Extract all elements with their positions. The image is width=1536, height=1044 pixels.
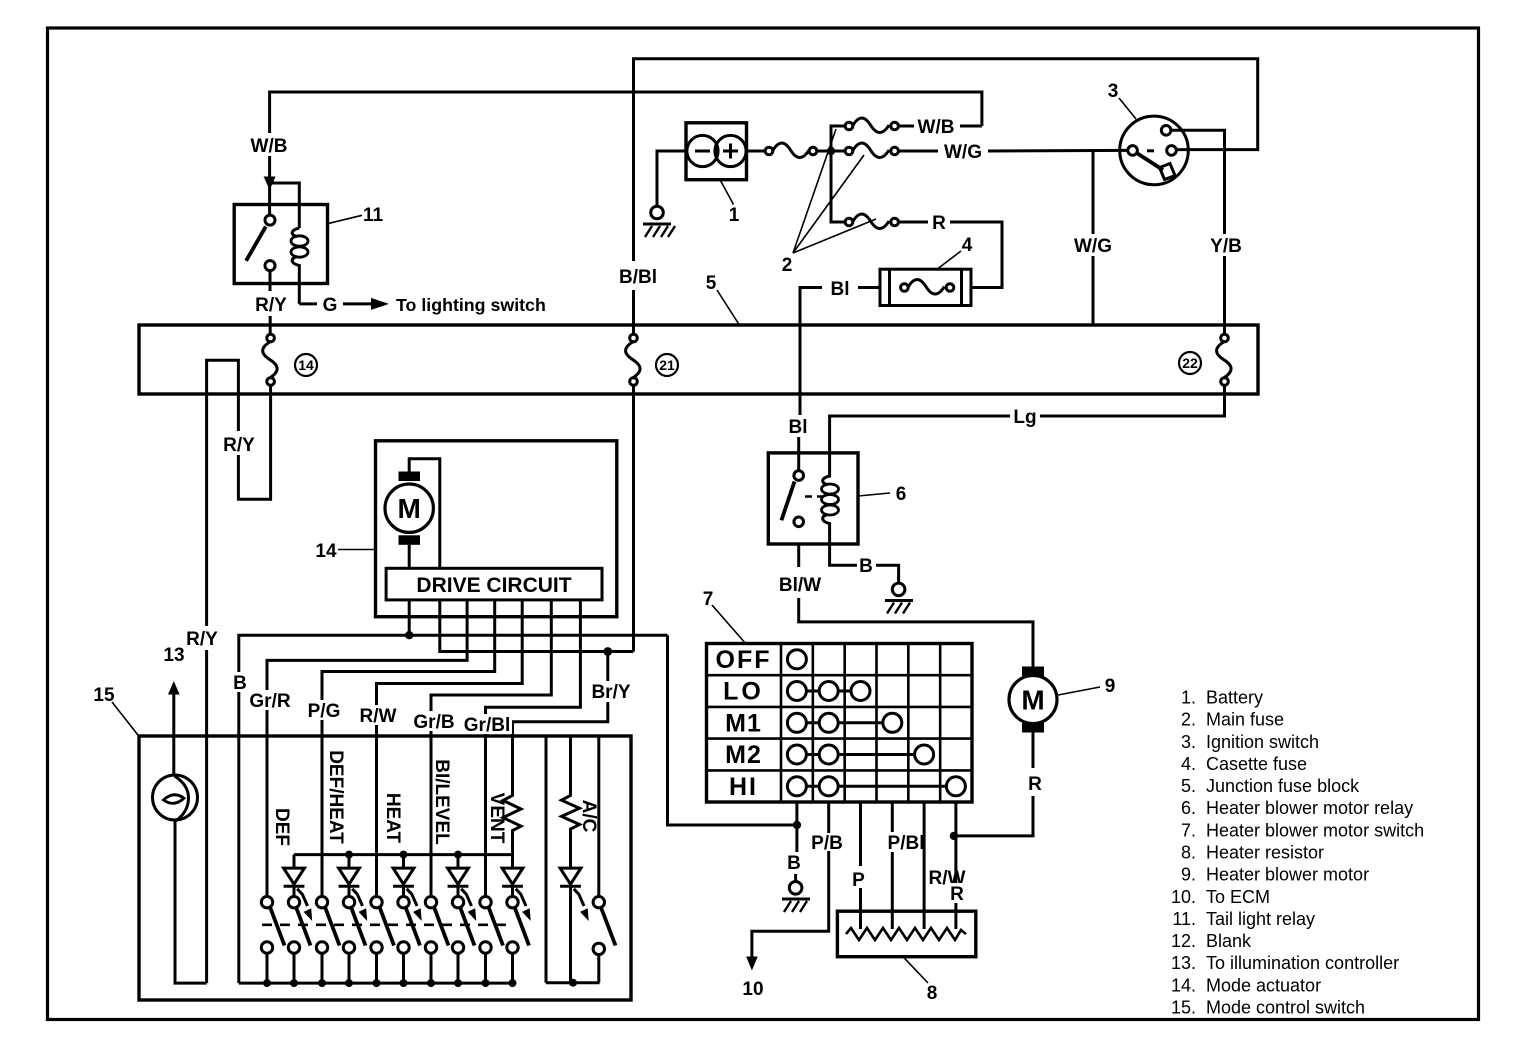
svg-text:B: B bbox=[859, 556, 873, 577]
svg-text:7: 7 bbox=[703, 589, 714, 610]
svg-text:R/Y: R/Y bbox=[186, 629, 218, 650]
wire Bl from cassette fuse bbox=[858, 286, 880, 289]
wire pin6 Gr/B bbox=[431, 600, 551, 897]
wire R/Y detour below fuse 14 bbox=[207, 360, 271, 626]
resistor element bbox=[846, 928, 966, 940]
switch row LO contact line bbox=[797, 690, 861, 693]
contacts group 1 bbox=[261, 897, 272, 908]
ground at relay 6 bbox=[892, 583, 905, 596]
svg-text:4.: 4. bbox=[1181, 754, 1196, 774]
svg-text:13: 13 bbox=[163, 645, 184, 666]
wire Bl/W relay 6 to motor 9 bbox=[797, 544, 800, 567]
wire pin2 to B/Bl junction bbox=[440, 600, 634, 652]
label R/W bbox=[926, 867, 968, 889]
switch blade 2a bbox=[325, 908, 339, 946]
arrow 10 bbox=[746, 957, 758, 971]
wire pin3 Gr/R bbox=[267, 600, 467, 897]
svg-text:P/B: P/B bbox=[811, 833, 843, 854]
actuation arrow group 5 bbox=[516, 889, 526, 906]
svg-text:R/W: R/W bbox=[360, 706, 397, 727]
wire B run bbox=[239, 635, 668, 672]
mode switch group 5 top contacts bbox=[486, 948, 513, 984]
switch blade 4a bbox=[434, 908, 448, 946]
svg-text:2.: 2. bbox=[1181, 710, 1196, 730]
svg-text:To lighting switch: To lighting switch bbox=[396, 295, 546, 315]
svg-text:R: R bbox=[932, 213, 946, 234]
label Gr/B bbox=[411, 711, 457, 733]
wire to fuse 2d bbox=[831, 151, 845, 222]
label W/B bbox=[246, 133, 293, 157]
fuse 21 bbox=[630, 334, 638, 342]
svg-text:B/Bl: B/Bl bbox=[619, 267, 657, 288]
relay 11 switch blade bbox=[246, 227, 266, 261]
label W/G vertical bbox=[1068, 235, 1118, 257]
wire actuator motor bottom bbox=[408, 545, 411, 569]
drive circuit box bbox=[386, 568, 602, 600]
label R bbox=[948, 883, 966, 905]
leader for label 6 bbox=[858, 493, 890, 496]
ground below switch bbox=[789, 882, 802, 895]
svg-text:LO: LO bbox=[723, 678, 764, 706]
wire G to lighting switch bbox=[299, 302, 317, 305]
svg-text:Junction fuse block: Junction fuse block bbox=[1206, 776, 1360, 796]
A/C switch bottom stem bbox=[597, 955, 600, 983]
svg-text:W/G: W/G bbox=[1074, 236, 1112, 257]
junction fuse block 5 bbox=[139, 325, 1258, 394]
svg-text:22: 22 bbox=[1182, 355, 1198, 371]
svg-text:Bl/W: Bl/W bbox=[779, 575, 821, 596]
svg-text:7.: 7. bbox=[1181, 820, 1196, 840]
wire col1 B to ground bbox=[795, 802, 798, 852]
wire col3 P bbox=[859, 802, 862, 866]
switch row OFF contacts bbox=[787, 650, 806, 669]
svg-text:Casette fuse: Casette fuse bbox=[1206, 754, 1307, 774]
wire pin4 P/G bbox=[322, 600, 495, 897]
wire branch to relay 11 coil bbox=[270, 183, 300, 228]
wire W/B feed (battery fuse to tail light relay) bbox=[270, 92, 982, 215]
leaders for label 2 bbox=[793, 129, 836, 253]
battery 1 bbox=[686, 123, 747, 180]
label Y/B bbox=[1205, 235, 1246, 257]
svg-text:Bl: Bl bbox=[831, 279, 850, 300]
leader for label 7 bbox=[712, 605, 746, 644]
leader for label 15 bbox=[112, 702, 140, 737]
svg-text:Heater blower motor switch: Heater blower motor switch bbox=[1206, 820, 1424, 840]
switch blade 1b bbox=[296, 908, 310, 946]
leader for label 11 bbox=[328, 215, 363, 223]
svg-text:R/Y: R/Y bbox=[255, 295, 287, 316]
relay 6 coil bbox=[823, 455, 830, 485]
arrow 13 bbox=[168, 681, 180, 695]
circled label 21 bbox=[656, 354, 678, 376]
cassette fuse element bbox=[901, 284, 909, 292]
ignition switch terminal left bbox=[1128, 146, 1138, 156]
svg-text:12.: 12. bbox=[1171, 931, 1196, 951]
ground below battery bbox=[651, 206, 664, 219]
wire R motor to switch bbox=[1032, 733, 1035, 769]
main fuse 2b (W/B) bbox=[845, 122, 853, 130]
relay 11 switch bottom contact bbox=[265, 261, 275, 271]
actuation arrow group 4 bbox=[461, 889, 471, 906]
heater blower motor relay 6 bbox=[768, 453, 858, 544]
label Gr/Bl bbox=[462, 714, 512, 736]
svg-text:P: P bbox=[852, 870, 865, 891]
wire R to cassette fuse bbox=[898, 221, 928, 224]
wire R/Y relay 11 to fuse 14 bbox=[269, 271, 272, 291]
svg-text:11: 11 bbox=[363, 205, 384, 226]
wire W/B fuse to corner bbox=[898, 125, 914, 128]
actuation arrow group 2 bbox=[352, 889, 362, 906]
wire B/Bl to fuse 21 bbox=[632, 290, 635, 335]
svg-text:M1: M1 bbox=[725, 709, 762, 737]
diode D1 bbox=[293, 855, 296, 869]
linkage dashed line bbox=[262, 923, 514, 926]
resistor A/C bbox=[562, 736, 580, 868]
svg-text:HEAT: HEAT bbox=[382, 793, 403, 844]
heater blower motor switch 7 table bbox=[707, 644, 973, 803]
wire Bl fuse block to relay 6 bbox=[799, 385, 802, 415]
circled label 14 bbox=[295, 354, 317, 376]
svg-text:9.: 9. bbox=[1181, 865, 1196, 885]
svg-text:R: R bbox=[1028, 774, 1042, 795]
svg-text:A/C: A/C bbox=[578, 800, 599, 833]
label B/Bl bbox=[615, 264, 661, 288]
relay 6 bottom contact bbox=[794, 517, 804, 527]
svg-text:3: 3 bbox=[1108, 81, 1119, 102]
svg-text:15: 15 bbox=[93, 685, 115, 706]
leader for label 14 bbox=[338, 549, 376, 551]
wire actuator motor top loop bbox=[409, 459, 440, 569]
wire relay 6 coil to ground B bbox=[830, 544, 857, 565]
wire col2 P/B to ECM bbox=[827, 802, 830, 833]
svg-text:14: 14 bbox=[315, 541, 337, 562]
svg-text:M: M bbox=[398, 493, 421, 524]
wire pin5 R/W bbox=[377, 600, 523, 897]
mode switch group 2 top contacts bbox=[322, 948, 349, 984]
fuse 22 bbox=[1221, 334, 1229, 342]
ignition switch pivot dash bbox=[1147, 149, 1154, 152]
A/C sub-box left bbox=[545, 736, 548, 983]
svg-text:Br/Y: Br/Y bbox=[591, 682, 630, 703]
diode D3 bbox=[402, 855, 405, 869]
leader for label 4 bbox=[936, 251, 961, 270]
svg-text:15.: 15. bbox=[1171, 998, 1196, 1018]
contacts group 2 bbox=[316, 897, 327, 908]
junction dot Br/Y bbox=[603, 647, 612, 656]
wire col6 R bbox=[954, 802, 957, 929]
svg-text:W/G: W/G bbox=[944, 142, 982, 163]
svg-text:B: B bbox=[787, 853, 801, 874]
mode actuator motor bbox=[399, 472, 421, 482]
svg-text:4: 4 bbox=[962, 235, 973, 256]
svg-text:Ignition switch: Ignition switch bbox=[1206, 732, 1319, 752]
mode switch group 3 top contacts bbox=[377, 948, 404, 984]
wire Lg fuse 22 to relay 6 coil bbox=[1040, 385, 1225, 416]
svg-text:Gr/R: Gr/R bbox=[249, 691, 290, 712]
A/C bottom bus bbox=[546, 981, 600, 984]
svg-text:Mode actuator: Mode actuator bbox=[1206, 975, 1321, 995]
main fuse 2c (W/G) bbox=[845, 147, 853, 155]
ignition switch 3 bbox=[1120, 116, 1189, 185]
svg-text:G: G bbox=[323, 295, 338, 316]
svg-text:6.: 6. bbox=[1181, 798, 1196, 818]
diode bus bbox=[294, 853, 513, 856]
svg-text:10.: 10. bbox=[1171, 887, 1196, 907]
junction dot diode bus 2 bbox=[345, 851, 353, 859]
contacts group 4 bbox=[425, 897, 436, 908]
battery minus sign bbox=[695, 150, 710, 153]
svg-text:DEF: DEF bbox=[271, 808, 292, 846]
svg-text:11.: 11. bbox=[1172, 909, 1196, 929]
svg-text:9: 9 bbox=[1105, 676, 1116, 697]
svg-text:1.: 1. bbox=[1181, 688, 1196, 708]
cassette fuse 4 box bbox=[880, 269, 971, 305]
svg-text:6: 6 bbox=[896, 484, 907, 505]
actuation arrow A/C bbox=[574, 889, 584, 906]
switch blade 4b bbox=[460, 908, 474, 946]
label P/Bl bbox=[884, 832, 928, 854]
svg-text:P/Bl: P/Bl bbox=[888, 833, 925, 854]
relay 6 switch blade bbox=[781, 482, 794, 521]
svg-text:Lg: Lg bbox=[1013, 407, 1036, 428]
arrow to lighting switch bbox=[371, 298, 389, 310]
contacts group 3 bbox=[371, 897, 382, 908]
switch row M2 contacts bbox=[787, 745, 806, 764]
A/C switch blade bbox=[601, 908, 616, 946]
ignition switch key flag bbox=[1160, 164, 1176, 180]
wire Br/Y drop bbox=[606, 652, 609, 682]
diode A/C bbox=[560, 868, 581, 884]
switch row LO contacts bbox=[787, 682, 806, 701]
svg-text:BI/LEVEL: BI/LEVEL bbox=[431, 759, 452, 845]
resistor VENT illumination bbox=[503, 792, 521, 855]
svg-text:Y/B: Y/B bbox=[1210, 236, 1242, 257]
wire B right branch to switch table bbox=[668, 635, 793, 825]
wire Y/B ignition to fuse 22 bbox=[1171, 130, 1225, 234]
diode D5 bbox=[511, 855, 514, 869]
svg-text:M2: M2 bbox=[725, 741, 762, 769]
svg-text:Bl: Bl bbox=[789, 417, 808, 438]
svg-text:OFF: OFF bbox=[716, 646, 772, 674]
svg-text:B: B bbox=[233, 673, 247, 694]
junction dot A/C bbox=[569, 979, 577, 987]
heater blower motor 9 bbox=[1022, 667, 1044, 677]
svg-text:8.: 8. bbox=[1181, 843, 1196, 863]
label R/W bbox=[356, 705, 400, 727]
label P/G bbox=[303, 700, 345, 722]
tail light relay box 11 bbox=[234, 205, 327, 284]
svg-text:W/B: W/B bbox=[918, 117, 955, 138]
wire B/Bl feed from ignition switch bbox=[634, 59, 1258, 261]
svg-text:Heater blower motor relay: Heater blower motor relay bbox=[1206, 798, 1413, 818]
ignition switch key lever bbox=[1138, 154, 1164, 171]
junction dot col6 to motor bbox=[950, 832, 958, 840]
wire B drop into mode switch bbox=[237, 692, 240, 983]
relay 11 coil bbox=[292, 228, 299, 237]
junction dot diode bus 3 bbox=[400, 851, 408, 859]
svg-text:To illumination controller: To illumination controller bbox=[1206, 953, 1399, 973]
A/C sub-box right / switch feed bbox=[597, 736, 600, 896]
svg-text:10: 10 bbox=[742, 979, 763, 1000]
svg-text:3.: 3. bbox=[1181, 732, 1196, 752]
label Gr/R bbox=[247, 690, 293, 712]
wire R/Y long drop into mode switch bbox=[205, 650, 208, 983]
arrow down on W/B wire bbox=[264, 177, 276, 191]
wire W/G ignition drop to fuse block bbox=[1092, 151, 1095, 234]
svg-text:P/G: P/G bbox=[308, 701, 341, 722]
svg-text:M: M bbox=[1021, 685, 1044, 716]
switch row HI contacts bbox=[787, 777, 806, 796]
svg-text:14: 14 bbox=[298, 357, 314, 373]
legend list bbox=[1171, 688, 1424, 1018]
svg-text:1: 1 bbox=[729, 205, 740, 226]
main fuse 2a bbox=[747, 150, 766, 153]
switch blade 5b bbox=[515, 908, 529, 946]
switch blade 5a bbox=[489, 908, 503, 946]
svg-text:Gr/Bl: Gr/Bl bbox=[464, 715, 510, 736]
svg-text:HI: HI bbox=[729, 773, 758, 801]
svg-text:Heater resistor: Heater resistor bbox=[1206, 843, 1324, 863]
junction dot pin1 bbox=[405, 631, 413, 639]
mode switch group 1 top contacts bbox=[267, 948, 294, 984]
illumination lamp bbox=[153, 775, 198, 820]
diode D2 bbox=[348, 855, 351, 869]
svg-text:Battery: Battery bbox=[1206, 688, 1263, 708]
svg-text:R: R bbox=[950, 884, 964, 905]
actuation arrow group 1 bbox=[297, 889, 307, 906]
svg-text:Mode control switch: Mode control switch bbox=[1206, 998, 1365, 1018]
svg-text:5.: 5. bbox=[1181, 776, 1196, 796]
switch row M1 contact line bbox=[797, 721, 892, 724]
wire B bus bbox=[239, 982, 513, 985]
mode switch group 4 top contacts bbox=[431, 948, 458, 984]
A/C switch contacts bbox=[593, 897, 604, 908]
svg-text:To ECM: To ECM bbox=[1206, 887, 1270, 907]
wire B/Bl below fuse 21 bbox=[632, 385, 635, 651]
relay 6 actuation dashes bbox=[805, 495, 823, 498]
wire col5 R/W bbox=[923, 802, 926, 929]
svg-text:14.: 14. bbox=[1171, 975, 1196, 995]
switch row M2 contact line bbox=[797, 753, 924, 756]
wire pin7 Gr/Bl bbox=[486, 600, 581, 897]
contacts group 5 bbox=[480, 897, 491, 908]
switch blade 3b bbox=[406, 908, 420, 946]
relay 11 switch top contact bbox=[265, 215, 275, 225]
ignition switch terminal top bbox=[1161, 126, 1171, 136]
mode actuator 14 box bbox=[376, 441, 617, 617]
ignition switch terminal right bbox=[1167, 146, 1177, 156]
switch row M1 contacts bbox=[787, 713, 806, 732]
junction dot col1 bbox=[793, 821, 801, 829]
switch blade 2b bbox=[351, 908, 365, 946]
actuation arrow group 3 bbox=[407, 889, 417, 906]
svg-text:Tail light relay: Tail light relay bbox=[1206, 909, 1315, 929]
heater resistor 8 bbox=[837, 911, 975, 957]
fuse 14 bbox=[267, 334, 275, 342]
svg-text:DEF/HEAT: DEF/HEAT bbox=[325, 750, 346, 844]
wire to fuse 2b bbox=[831, 126, 845, 151]
junction dot diode bus 4 bbox=[454, 851, 462, 859]
svg-text:Main fuse: Main fuse bbox=[1206, 710, 1284, 730]
svg-text:21: 21 bbox=[659, 357, 675, 373]
svg-text:Blank: Blank bbox=[1206, 931, 1252, 951]
switch blade 1a bbox=[270, 908, 284, 946]
svg-text:Heater blower motor: Heater blower motor bbox=[1206, 865, 1369, 885]
svg-text:VENT: VENT bbox=[486, 793, 507, 844]
battery plus sign bbox=[723, 144, 738, 159]
diode D4 bbox=[457, 855, 460, 869]
leader for label 3 bbox=[1119, 98, 1136, 119]
wire battery negative to ground bbox=[657, 151, 686, 206]
node main fuse junction bbox=[817, 150, 845, 153]
svg-text:13.: 13. bbox=[1171, 953, 1196, 973]
main fuse 2d (R) bbox=[845, 218, 853, 226]
switch blade 3a bbox=[380, 908, 394, 946]
wire lamp to R/Y bbox=[175, 820, 207, 983]
wire col4 P/Bl bbox=[891, 802, 894, 833]
svg-text:W/B: W/B bbox=[251, 136, 288, 157]
svg-text:R/Y: R/Y bbox=[223, 435, 255, 456]
label R/Y upper bbox=[220, 431, 260, 456]
svg-text:DRIVE CIRCUIT: DRIVE CIRCUIT bbox=[416, 574, 571, 597]
leader for label 1 bbox=[720, 180, 733, 204]
wire W/G to ignition switch bbox=[898, 150, 938, 153]
leader for label 8 bbox=[903, 957, 928, 983]
svg-text:2: 2 bbox=[782, 255, 793, 276]
wire to illumination controller 13 bbox=[172, 693, 175, 775]
leader for label 9 bbox=[1058, 687, 1100, 695]
svg-text:8: 8 bbox=[927, 983, 938, 1004]
circled label 22 bbox=[1179, 352, 1201, 374]
svg-text:Gr/B: Gr/B bbox=[413, 712, 454, 733]
svg-text:5: 5 bbox=[706, 273, 717, 294]
switch row HI contact line bbox=[797, 785, 956, 788]
relay 6 top contact bbox=[794, 471, 804, 481]
mode control switch 15 box bbox=[139, 736, 631, 1000]
wire pin1 B drop bbox=[408, 600, 411, 635]
leader for label 5 bbox=[717, 290, 740, 326]
